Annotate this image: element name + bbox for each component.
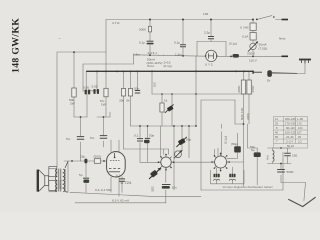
- svg-text:170–190: 170–190: [285, 122, 296, 126]
- svg-text:0,1A: 0,1A: [242, 35, 249, 39]
- svg-text:8μ: 8μ: [251, 148, 255, 152]
- svg-text:50p: 50p: [186, 138, 191, 142]
- svg-text:150: 150: [292, 154, 297, 158]
- svg-text:26: 26: [298, 135, 301, 139]
- svg-text:1,5m: 1,5m: [175, 53, 182, 57]
- svg-text:1k: 1k: [164, 99, 168, 103]
- svg-text:100: 100: [203, 12, 208, 16]
- svg-text:110 V: 110 V: [249, 59, 258, 63]
- svg-text:30k: 30k: [119, 99, 124, 103]
- svg-text:2,2: 2,2: [298, 140, 302, 144]
- svg-text:100–125: 100–125: [285, 131, 296, 135]
- svg-text:(7,5Ω): (7,5Ω): [259, 47, 268, 51]
- svg-text:50p: 50p: [134, 87, 139, 91]
- svg-text:25: 25: [275, 122, 278, 126]
- svg-text:5μ: 5μ: [79, 173, 83, 177]
- svg-text:3Ω2: 3Ω2: [151, 186, 155, 192]
- svg-text:0,1μ: 0,1μ: [174, 41, 180, 45]
- svg-text:(0,1μ): (0,1μ): [224, 136, 228, 144]
- svg-text:5000: 5000: [139, 28, 146, 32]
- svg-text:220 V: 220 V: [247, 52, 256, 56]
- svg-text:Dr: Dr: [267, 79, 270, 83]
- svg-text:148 GW/KK: 148 GW/KK: [11, 18, 22, 73]
- svg-text:10n: 10n: [172, 186, 177, 190]
- svg-text:104: 104: [298, 126, 303, 130]
- svg-text:200–240: 200–240: [285, 117, 296, 121]
- svg-text:50p: 50p: [149, 134, 154, 138]
- svg-text:2–2,4: 2–2,4: [286, 140, 293, 144]
- svg-text:0,1μ: 0,1μ: [139, 41, 145, 45]
- svg-text:5k: 5k: [126, 99, 130, 103]
- svg-text:U Y 2: U Y 2: [205, 63, 213, 67]
- svg-text:2,5μ: 2,5μ: [204, 31, 210, 35]
- svg-text:0,05: 0,05: [83, 85, 89, 89]
- svg-text:5m: 5m: [90, 136, 95, 140]
- svg-text:40: 40: [275, 131, 278, 135]
- svg-text:0,1: 0,1: [134, 134, 139, 138]
- svg-text:(0,1μ): (0,1μ): [164, 64, 172, 68]
- svg-text:Vor dem Abgleichen Netzstecker: Vor dem Abgleichen Netzstecker ziehen!: [223, 185, 273, 189]
- svg-text:6,3 V 62 mA: 6,3 V 62 mA: [112, 198, 130, 202]
- svg-text:0,1: 0,1: [116, 174, 121, 178]
- svg-text:0,05: 0,05: [92, 85, 98, 89]
- svg-text:6800: 6800: [237, 85, 241, 92]
- svg-text:24–30: 24–30: [286, 135, 294, 139]
- svg-text:1–80: 1–80: [297, 117, 303, 121]
- svg-text:U 724: U 724: [121, 180, 132, 185]
- svg-text:1,5m: 1,5m: [133, 53, 140, 57]
- svg-text:100: 100: [153, 82, 157, 87]
- svg-text:5000: 5000: [287, 170, 294, 174]
- svg-text:4,7 Ω: 4,7 Ω: [112, 21, 120, 25]
- svg-text:(500): (500): [94, 155, 101, 159]
- svg-text:55: 55: [275, 135, 278, 139]
- svg-text:1W: 1W: [101, 103, 106, 107]
- svg-text:12: 12: [275, 117, 278, 121]
- svg-text:5m: 5m: [66, 137, 71, 141]
- svg-text:50 Hz: 50 Hz: [287, 144, 295, 148]
- svg-text:170: 170: [297, 122, 302, 126]
- svg-text:25μ: 25μ: [80, 155, 85, 159]
- svg-text:∼: ∼: [58, 36, 61, 41]
- svg-text:Netz: Netz: [279, 37, 286, 41]
- svg-text:2 4 5 1: 2 4 5 1: [148, 51, 158, 55]
- svg-text:U 14S: U 14S: [240, 26, 249, 30]
- svg-text:2200: 2200: [246, 113, 250, 120]
- svg-text:2200: 2200: [251, 85, 255, 92]
- svg-text:Ant: Ant: [266, 155, 270, 160]
- svg-text:96–110: 96–110: [286, 126, 295, 130]
- svg-text:B.Gl.: B.Gl.: [148, 64, 155, 68]
- svg-text:107: 107: [297, 131, 302, 135]
- svg-text:2W: 2W: [70, 102, 75, 106]
- svg-text:0,4–0,1 500: 0,4–0,1 500: [95, 188, 112, 192]
- svg-text:NSF 100: NSF 100: [240, 108, 244, 120]
- svg-text:(5000): (5000): [59, 180, 63, 189]
- svg-text:(50μ): (50μ): [231, 142, 238, 146]
- svg-text:(0,1μ): (0,1μ): [229, 42, 237, 46]
